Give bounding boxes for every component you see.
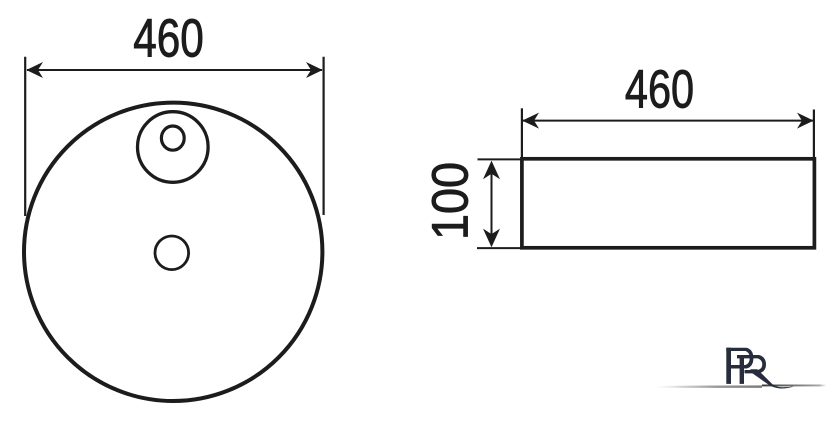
- logo swoosh right gradient line: [762, 385, 826, 387]
- svg-text:460: 460: [625, 59, 694, 119]
- arrowhead left: [522, 113, 539, 129]
- logo letter P: [726, 348, 731, 384]
- arrowhead up: [483, 161, 500, 180]
- arrowhead right: [306, 62, 323, 78]
- tick top (100 dim): [478, 158, 522, 160]
- extension line left (above rect): [521, 108, 523, 159]
- faucet hole outer circle: [138, 112, 209, 183]
- basin outer circle: [24, 103, 322, 401]
- dimension line 460 right: [523, 120, 813, 122]
- overflow hole circle: [155, 236, 189, 270]
- dimension line 460: [27, 69, 322, 71]
- svg-text:100: 100: [422, 162, 479, 240]
- tick bottom (100 dim): [477, 247, 521, 249]
- svg-text:460: 460: [133, 9, 204, 69]
- faucet hole inner circle: [161, 126, 184, 150]
- logo swoosh left gradient line: [652, 384, 762, 387]
- extension line right (above rect): [813, 110, 815, 160]
- arrowhead right: [797, 113, 814, 129]
- logo letter R: [740, 355, 744, 384]
- arrowhead down: [483, 229, 500, 248]
- basin side rectangle: [522, 159, 815, 248]
- extension line right: [323, 57, 325, 215]
- extension line left: [24, 57, 26, 216]
- vertical dimension line 100: [491, 163, 493, 245]
- logo R leg with swoosh tail: [749, 369, 794, 388]
- arrowhead left: [26, 62, 43, 78]
